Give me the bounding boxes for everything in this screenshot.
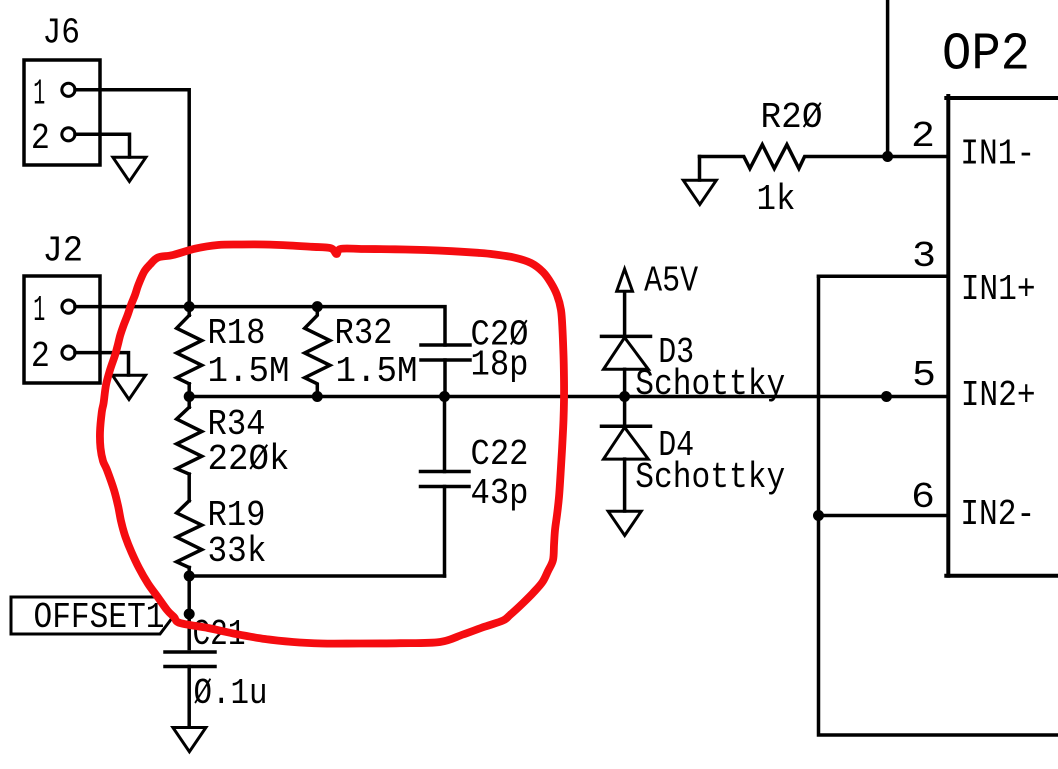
wire mid node to IN2+ bbox=[189, 395, 946, 399]
svg-text:IN1+: IN1+ bbox=[961, 269, 1036, 310]
wire bottom node horizontal bbox=[189, 574, 444, 578]
pin6 node junction bbox=[813, 510, 824, 521]
svg-text:43p: 43p bbox=[471, 473, 529, 514]
svg-text:Schottky: Schottky bbox=[635, 364, 785, 405]
capacitor C21 bbox=[165, 652, 215, 727]
resistor R20 bbox=[700, 145, 947, 169]
mid node junctions bbox=[184, 391, 195, 402]
ground (J6) bbox=[113, 157, 146, 181]
net flag OFFSET1 bbox=[11, 597, 174, 634]
wire top vertical to pin2 node bbox=[886, 0, 890, 157]
ground (J2) bbox=[113, 375, 146, 399]
svg-text:2: 2 bbox=[31, 336, 50, 377]
resistor R34 bbox=[177, 407, 202, 474]
wire R34 to R19 bbox=[187, 474, 191, 501]
svg-text:J2: J2 bbox=[43, 230, 84, 271]
power symbol A5V bbox=[617, 269, 633, 291]
pin2 node junction bbox=[882, 151, 893, 162]
svg-text:OP2: OP2 bbox=[942, 25, 1030, 85]
pin 1 circle J6 bbox=[62, 83, 75, 96]
wire D4 to ground bbox=[623, 459, 627, 511]
svg-text:6: 6 bbox=[911, 477, 935, 518]
pin 2 circle J6 bbox=[62, 128, 75, 141]
wire R18 bottom to R34 top bbox=[187, 384, 191, 407]
svg-text:1.5M: 1.5M bbox=[208, 351, 290, 392]
svg-text:5: 5 bbox=[912, 355, 936, 396]
svg-text:18p: 18p bbox=[471, 344, 529, 385]
svg-text:2: 2 bbox=[31, 118, 50, 159]
diode D4 bbox=[602, 426, 651, 459]
wire left vertical pin3-pin6-bottom bbox=[819, 276, 1058, 735]
wire J6 pin1 to node bbox=[75, 90, 189, 315]
pin 2 circle J2 bbox=[62, 346, 75, 359]
svg-text:J6: J6 bbox=[43, 13, 81, 54]
svg-text:OFFSET1: OFFSET1 bbox=[34, 597, 165, 638]
ground (C21) bbox=[173, 728, 206, 752]
svg-text:1: 1 bbox=[33, 290, 45, 331]
red annotation loop bbox=[100, 244, 564, 643]
node R32 top junction bbox=[312, 301, 323, 312]
connector J2 bbox=[24, 276, 100, 383]
resistor R32 bbox=[305, 307, 330, 397]
svg-text:2: 2 bbox=[911, 116, 935, 157]
connector J6 bbox=[24, 60, 100, 165]
resistor R19 bbox=[177, 501, 202, 568]
node A junction bbox=[184, 301, 195, 312]
svg-text:1: 1 bbox=[33, 74, 45, 115]
op-amp U1 box OP2 bbox=[946, 96, 1058, 576]
svg-text:1.5M: 1.5M bbox=[336, 351, 418, 392]
svg-text:R19: R19 bbox=[208, 495, 266, 536]
svg-text:IN2+: IN2+ bbox=[961, 375, 1036, 416]
offset node junction bbox=[184, 609, 195, 620]
wire node A top horizontal bbox=[189, 307, 445, 345]
wire J6 pin2 to ground bbox=[75, 134, 130, 157]
wire pin6 bbox=[819, 514, 947, 518]
wire R19 to bottom node bbox=[187, 568, 191, 649]
wire D3 to D4 bbox=[623, 369, 627, 426]
svg-text:3: 3 bbox=[912, 236, 936, 277]
diode D3 bbox=[602, 336, 651, 369]
svg-text:IN2-: IN2- bbox=[960, 494, 1035, 535]
capacitor C22 bbox=[421, 397, 470, 577]
svg-text:IN1-: IN1- bbox=[960, 134, 1035, 175]
wire J2 pin1 to node A bbox=[75, 305, 189, 309]
wire R20 left to ground bbox=[698, 157, 702, 181]
wire A5V to D3 bbox=[623, 294, 627, 337]
svg-text:22Øk: 22Øk bbox=[208, 439, 290, 480]
ground (D4) bbox=[608, 511, 641, 535]
ground (R20) bbox=[683, 180, 716, 204]
svg-text:C22: C22 bbox=[471, 434, 529, 475]
wire J2 pin2 to ground bbox=[75, 353, 129, 375]
pin 1 circle J2 bbox=[62, 300, 75, 313]
svg-text:Schottky: Schottky bbox=[635, 457, 785, 498]
svg-text:33k: 33k bbox=[208, 531, 267, 572]
resistor R18 bbox=[177, 315, 202, 384]
bottom node junction bbox=[184, 571, 195, 582]
svg-text:R18: R18 bbox=[208, 313, 266, 354]
svg-text:R32: R32 bbox=[335, 313, 393, 354]
capacitor C20 bbox=[421, 345, 470, 397]
wire pin3 bbox=[819, 275, 947, 279]
svg-text:1k: 1k bbox=[757, 179, 796, 220]
svg-text:A5V: A5V bbox=[644, 261, 698, 302]
svg-text:Ø.1u: Ø.1u bbox=[194, 673, 268, 714]
svg-text:R2Ø: R2Ø bbox=[761, 97, 823, 138]
